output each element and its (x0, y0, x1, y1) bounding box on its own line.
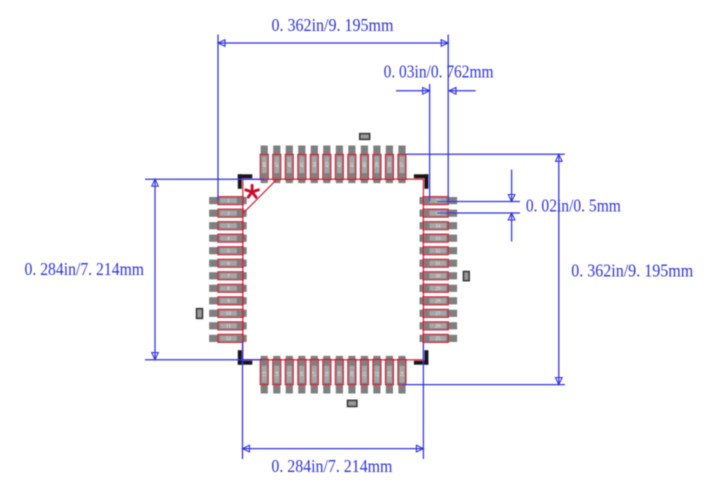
svg-text:0. 284in/7. 214mm: 0. 284in/7. 214mm (271, 456, 392, 476)
svg-text:40: 40 (362, 162, 368, 168)
svg-text:5: 5 (227, 249, 230, 255)
svg-text:32: 32 (435, 249, 441, 255)
svg-text:7: 7 (227, 274, 230, 280)
svg-text:24: 24 (400, 371, 406, 377)
svg-text:31: 31 (435, 261, 441, 267)
svg-text:12: 12 (226, 336, 232, 342)
svg-text:35: 35 (435, 211, 441, 217)
svg-text:4: 4 (227, 236, 230, 242)
svg-text:25: 25 (435, 336, 441, 342)
svg-text:20: 20 (350, 371, 356, 377)
svg-text:22: 22 (375, 371, 381, 377)
svg-text:23: 23 (387, 371, 393, 377)
svg-text:8: 8 (227, 286, 230, 292)
svg-text:45: 45 (300, 162, 306, 168)
svg-text:11: 11 (226, 324, 231, 330)
svg-text:21: 21 (362, 371, 368, 377)
svg-text:19: 19 (337, 371, 343, 377)
svg-text:10: 10 (226, 311, 232, 317)
svg-text:2: 2 (227, 211, 230, 217)
svg-text:0. 362in/9. 195mm: 0. 362in/9. 195mm (571, 261, 693, 281)
svg-text:41: 41 (350, 162, 356, 168)
svg-text:27: 27 (435, 311, 441, 317)
svg-text:0. 362in/9. 195mm: 0. 362in/9. 195mm (272, 15, 394, 35)
svg-text:6: 6 (227, 261, 230, 267)
svg-text:44: 44 (312, 162, 318, 168)
svg-text:33: 33 (435, 236, 441, 242)
svg-text:29: 29 (435, 286, 441, 292)
svg-text:14: 14 (275, 371, 281, 377)
svg-text:13: 13 (262, 371, 268, 377)
svg-text:43: 43 (325, 162, 331, 168)
svg-text:39: 39 (375, 162, 381, 168)
svg-text:47: 47 (275, 162, 281, 168)
svg-text:18: 18 (325, 371, 331, 377)
svg-text:3: 3 (227, 224, 230, 230)
svg-text:9: 9 (227, 299, 230, 305)
svg-text:0. 02in/0. 5mm: 0. 02in/0. 5mm (526, 196, 621, 216)
svg-text:46: 46 (287, 162, 293, 168)
svg-text:1: 1 (227, 198, 230, 204)
svg-text:37: 37 (400, 162, 406, 168)
svg-text:28: 28 (435, 299, 441, 305)
svg-text:30: 30 (435, 274, 441, 280)
svg-text:0. 284in/7. 214mm: 0. 284in/7. 214mm (25, 259, 145, 279)
svg-text:38: 38 (387, 162, 393, 168)
svg-text:48: 48 (262, 162, 268, 168)
svg-text:15: 15 (287, 371, 293, 377)
svg-text:26: 26 (435, 324, 441, 330)
svg-text:16: 16 (300, 371, 306, 377)
svg-text:0. 03in/0. 762mm: 0. 03in/0. 762mm (384, 61, 494, 81)
svg-text:17: 17 (312, 371, 318, 377)
svg-text:42: 42 (337, 162, 343, 168)
svg-text:34: 34 (435, 224, 441, 230)
